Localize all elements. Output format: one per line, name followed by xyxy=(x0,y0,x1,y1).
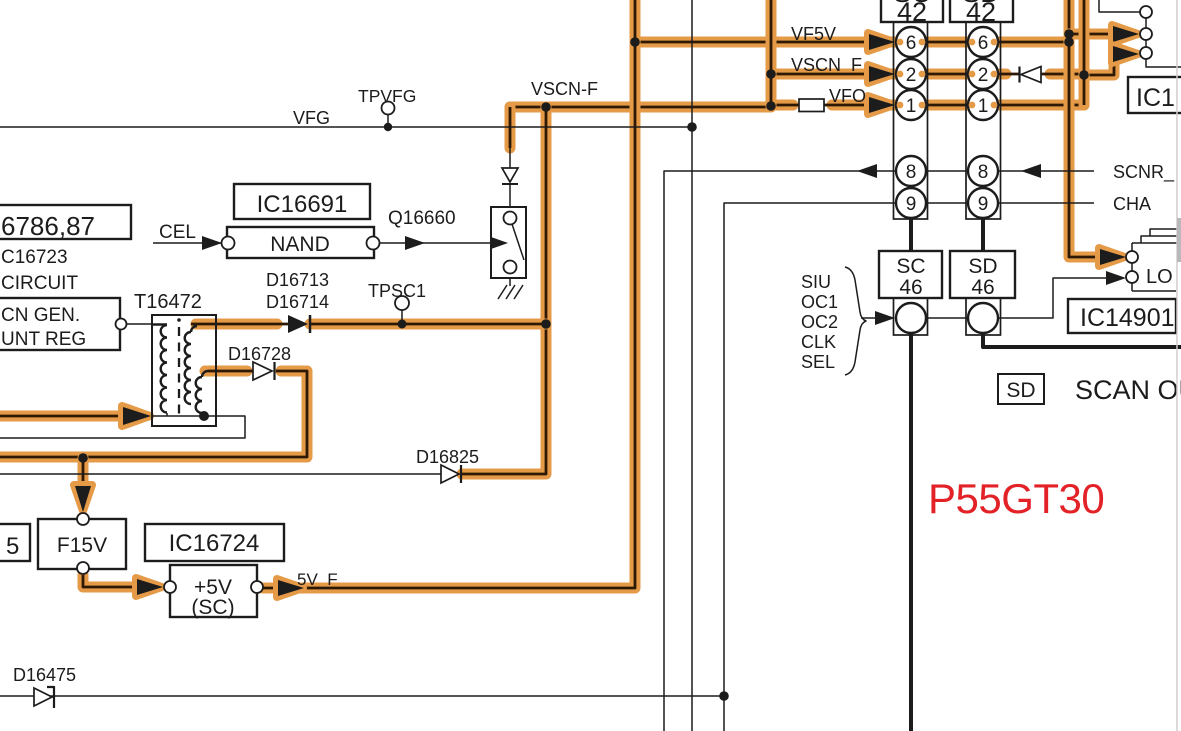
box SC46 xyxy=(879,251,942,299)
svg-text:SD: SD xyxy=(968,255,997,278)
label C16723 xyxy=(1,247,68,268)
junction node TPSC1 xyxy=(398,320,407,329)
box 6786,87 xyxy=(0,205,131,241)
diode above switch (pointing down) xyxy=(502,168,518,184)
svg-text:SEL: SEL xyxy=(801,352,835,372)
svg-text:D16728: D16728 xyxy=(228,344,291,364)
label SCNR_ xyxy=(1113,162,1175,183)
label CIRCUIT xyxy=(1,273,78,294)
pin 6 SC42 xyxy=(896,27,926,57)
wire transformer input xyxy=(0,406,151,426)
page edge xyxy=(1177,0,1181,731)
wire switch top lead xyxy=(509,148,511,207)
wire pin-8 row SCNR with vertical at x=664 xyxy=(664,164,1094,731)
svg-text:SIU: SIU xyxy=(801,272,831,292)
label LO xyxy=(1146,266,1173,288)
pin circle SC46 xyxy=(896,303,926,333)
label CEL xyxy=(159,222,196,243)
label SCAN OUT xyxy=(1075,375,1181,405)
svg-text:VFG: VFG xyxy=(293,108,330,128)
box SCN GEN SHUNT REG xyxy=(0,298,127,350)
pin 2 SD42 xyxy=(968,59,998,89)
svg-text:6: 6 xyxy=(978,33,989,54)
label D16825 xyxy=(416,447,479,467)
TPVFG test point xyxy=(382,102,395,128)
wire D16728 loop xyxy=(0,371,307,457)
svg-text:6: 6 xyxy=(906,33,917,54)
label D16713 xyxy=(266,270,329,290)
svg-text:46: 46 xyxy=(971,276,994,299)
connector SD42 box xyxy=(950,0,1013,27)
svg-text:LO: LO xyxy=(1146,266,1173,288)
svg-text:CEL: CEL xyxy=(159,222,196,243)
wire CN GEN box to transformer xyxy=(126,323,167,325)
box SD legend xyxy=(998,374,1044,404)
junction node transformer tap xyxy=(199,411,209,421)
svg-text:VSCN_F: VSCN_F xyxy=(791,55,862,76)
box F15V xyxy=(38,513,126,574)
svg-text:VFO: VFO xyxy=(829,86,866,106)
wire D16475 line xyxy=(0,695,724,697)
label VFG xyxy=(293,108,330,128)
label SEL xyxy=(801,352,835,372)
label D16728 xyxy=(228,344,291,364)
svg-text:6786,87: 6786,87 xyxy=(1,211,95,241)
svg-text:D16713: D16713 xyxy=(266,270,329,290)
wire line to D16825 xyxy=(0,473,441,475)
diode D16713 D16714 xyxy=(288,315,310,333)
pin 8 SD42 xyxy=(968,156,998,186)
svg-text:TPVFG: TPVFG xyxy=(358,86,416,106)
svg-text:C16723: C16723 xyxy=(1,247,68,268)
svg-text:CIRCUIT: CIRCUIT xyxy=(1,273,78,294)
label VSCN-F xyxy=(531,79,598,99)
box IC1 (clipped) xyxy=(1128,77,1181,113)
diode D16825 xyxy=(441,465,461,483)
svg-text:46: 46 xyxy=(899,276,922,299)
label D16475 xyxy=(13,665,76,685)
svg-text:OC2: OC2 xyxy=(801,312,838,332)
svg-text:SCNR_: SCNR_ xyxy=(1113,162,1175,183)
pin 6 SD42 xyxy=(968,27,998,57)
svg-text:(SC): (SC) xyxy=(191,596,234,619)
svg-text:NAND: NAND xyxy=(270,233,330,256)
ground xyxy=(498,285,523,299)
label OC1 xyxy=(801,292,838,312)
svg-text:1: 1 xyxy=(978,96,989,117)
junction node VSCN_F branch xyxy=(766,69,776,79)
label 5V_F xyxy=(297,570,338,589)
svg-text:IC1: IC1 xyxy=(1136,84,1175,112)
pin 9 SD42 xyxy=(968,188,998,218)
svg-text:OC1: OC1 xyxy=(801,292,838,312)
box SD46 xyxy=(950,251,1015,299)
connector top right circles xyxy=(1140,6,1152,59)
wire pin9 to SC42 stub xyxy=(909,218,913,251)
connector LO circles xyxy=(1126,251,1138,283)
svg-text:T16472: T16472 xyxy=(134,291,202,313)
wire SC46 output thick vertical xyxy=(909,333,913,731)
svg-text:9: 9 xyxy=(906,194,917,215)
box IC16724 xyxy=(145,524,284,561)
svg-text:D16825: D16825 xyxy=(416,447,479,467)
svg-text:IC16691: IC16691 xyxy=(257,191,348,218)
pin 9 SC42 xyxy=(896,188,926,218)
wire F15V to +5V regulator xyxy=(83,575,163,596)
wire TPSC1 row xyxy=(191,319,546,330)
wire LO connector frame xyxy=(1132,229,1181,291)
svg-text:2: 2 xyxy=(978,65,989,86)
svg-text:SC: SC xyxy=(896,255,925,278)
connector SD42 strip xyxy=(966,22,1001,335)
svg-text:F15V: F15V xyxy=(57,534,107,557)
wire branch arrow to top connector pin 3 xyxy=(1084,45,1139,75)
wire VFG line xyxy=(0,126,692,128)
junction node VF5V branch xyxy=(630,37,640,47)
brace for SIU OC1 OC2 CLK SEL xyxy=(845,267,866,375)
junction node VSCN_F end xyxy=(1079,70,1089,80)
wire top right connector chain xyxy=(1146,18,1181,67)
pin 1 SD42 xyxy=(968,90,998,120)
svg-text:Q16660: Q16660 xyxy=(388,208,456,229)
svg-text:D16475: D16475 xyxy=(13,665,76,685)
svg-text:8: 8 xyxy=(978,162,989,183)
svg-text:2: 2 xyxy=(906,65,917,86)
svg-text:CHA: CHA xyxy=(1113,194,1151,214)
pin 8 SC42 xyxy=(896,156,926,186)
svg-text:5: 5 xyxy=(6,533,19,560)
wire D16825 to VSCN-F vertical xyxy=(462,107,546,474)
diode at VSCN_F row (pointing left) xyxy=(1020,67,1042,83)
wire SIU bus arrow into SC46 xyxy=(861,311,895,325)
wire SD46 to LO connector xyxy=(998,271,1126,318)
label VFO xyxy=(829,86,866,106)
label SIU xyxy=(801,272,831,292)
label VSCN_F xyxy=(791,55,862,76)
svg-text:SCAN OUT: SCAN OUT xyxy=(1075,375,1181,405)
wire vertical to VSCN_F branch xyxy=(766,0,777,106)
switch Q16660 xyxy=(491,207,526,278)
svg-text:SD: SD xyxy=(962,0,1000,8)
junction node VFO branch xyxy=(766,101,776,111)
wire SC46 to SD46 link xyxy=(926,317,968,319)
wire CEL input arrow xyxy=(153,236,222,250)
label T16472 xyxy=(134,291,202,313)
transformer T16472 xyxy=(152,315,216,426)
wire VF5V row (orange highlighted) xyxy=(635,33,1069,51)
pin 1 SC42 xyxy=(896,90,926,120)
pin circle SD46 xyxy=(968,303,998,333)
svg-text:5V_F: 5V_F xyxy=(297,570,338,589)
wire VSCN_F row (orange highlighted) xyxy=(771,65,1084,83)
TPSC1 test point xyxy=(395,296,409,324)
wire SD46 output thick to right xyxy=(983,332,1181,347)
label VF5V xyxy=(791,24,836,44)
wire vertical from top to VFO corner xyxy=(1079,0,1090,105)
box IC14901 xyxy=(1068,299,1176,333)
junction node VFG / vertical xyxy=(687,122,697,132)
junction node TPVFG xyxy=(384,123,392,131)
wire pin9 to SD42 stub xyxy=(981,218,985,251)
svg-text:TPSC1: TPSC1 xyxy=(368,281,426,301)
svg-text:9: 9 xyxy=(978,194,989,215)
box IC16691 xyxy=(234,184,370,219)
gate NAND xyxy=(222,227,380,258)
diode D16728 xyxy=(253,362,275,380)
wire 5V_F and long vertical xyxy=(263,0,635,597)
svg-text:D16714: D16714 xyxy=(266,292,329,312)
svg-text:1: 1 xyxy=(906,96,917,117)
label CLK xyxy=(801,332,836,352)
svg-text:8: 8 xyxy=(906,162,917,183)
wire VSCN-F stub down to diode xyxy=(505,107,516,148)
label TPVFG xyxy=(358,86,416,106)
wire transformer secondary return loop xyxy=(0,416,245,438)
junction node F15V branch xyxy=(78,453,88,463)
junction node top right branch xyxy=(1064,29,1074,39)
label OC2 xyxy=(801,312,838,332)
svg-text:SC: SC xyxy=(893,0,931,8)
pin 2 SC42 xyxy=(896,59,926,89)
junction node TPSC1 wire / vertical xyxy=(541,319,551,329)
connector SC42 box xyxy=(881,0,943,27)
box 5 (partial) xyxy=(0,524,30,561)
wire switch ground stem xyxy=(509,278,511,286)
wire pin-9 row CHA with vertical at x=724 xyxy=(724,203,1094,731)
label CHA xyxy=(1113,194,1151,214)
label Q16660 xyxy=(388,208,456,229)
svg-text:UNT REG: UNT REG xyxy=(1,329,86,350)
wire VSCN-F horizontal xyxy=(510,102,771,113)
svg-text:VSCN-F: VSCN-F xyxy=(531,79,598,99)
junction node VSCN-F / vertical xyxy=(541,102,551,112)
wire vertical right to LO arrow xyxy=(1069,0,1126,266)
svg-text:P55GT30: P55GT30 xyxy=(928,475,1104,522)
svg-text:IC14901: IC14901 xyxy=(1080,304,1175,332)
wire NAND output to switch Q16660 xyxy=(380,236,508,250)
label P55GT30 xyxy=(928,475,1104,522)
svg-text:IC16724: IC16724 xyxy=(169,530,260,557)
svg-text:CN GEN.: CN GEN. xyxy=(1,305,80,326)
label D16714 xyxy=(266,292,329,312)
wire top right connector feed xyxy=(1099,0,1140,12)
wire VFO row (orange highlighted) xyxy=(771,96,1084,114)
resistor on VFO line xyxy=(799,99,824,112)
svg-text:CLK: CLK xyxy=(801,332,836,352)
junction node VF5V end xyxy=(1064,37,1074,47)
svg-text:VF5V: VF5V xyxy=(791,24,836,44)
svg-text:SD: SD xyxy=(1006,379,1035,402)
box +5V (SC) regulator xyxy=(164,565,263,619)
connector SC42 strip xyxy=(894,22,928,335)
junction node D16475 line xyxy=(719,691,729,701)
label TPSC1 xyxy=(368,281,426,301)
wire branch down to F15V xyxy=(74,458,92,512)
wire branch arrow to top connector pin 2 xyxy=(1069,25,1139,43)
wire vertical bus at x=692 xyxy=(691,0,693,731)
diode D16475 xyxy=(34,686,54,708)
